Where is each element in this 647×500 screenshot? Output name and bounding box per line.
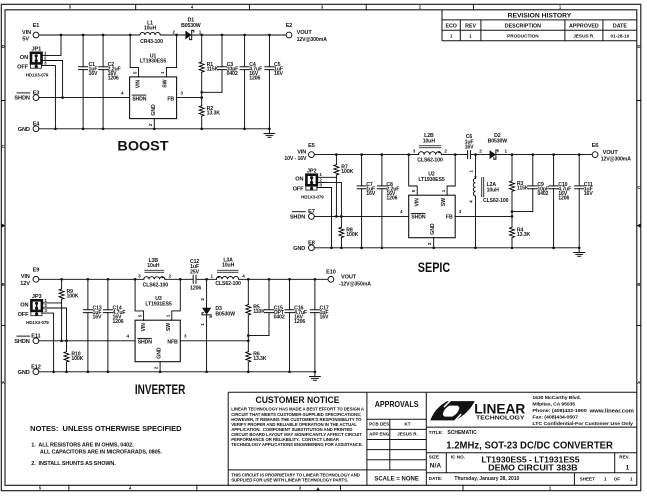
svg-text:LT1930ES5: LT1930ES5 bbox=[140, 59, 166, 65]
svg-text:1206: 1206 bbox=[558, 195, 569, 201]
svg-text:1: 1 bbox=[604, 477, 607, 482]
svg-text:VIN: VIN bbox=[21, 274, 30, 280]
label SEPIC bbox=[418, 259, 450, 275]
svg-text:2: 2 bbox=[154, 366, 159, 369]
junction dots inverter rail bbox=[60, 278, 316, 281]
node E7 SHDN bbox=[290, 209, 315, 220]
approvals table bbox=[367, 400, 426, 482]
logo Linear Technology bbox=[430, 400, 525, 421]
svg-text:JP3: JP3 bbox=[32, 294, 42, 300]
svg-text:4: 4 bbox=[469, 200, 474, 203]
resistor R7 100K bbox=[334, 155, 354, 217]
svg-text:E7: E7 bbox=[308, 209, 315, 215]
svg-text:Phone: (408)432-1900: Phone: (408)432-1900 bbox=[532, 408, 587, 413]
svg-text:FB: FB bbox=[446, 215, 453, 221]
svg-text:1: 1 bbox=[469, 34, 472, 39]
svg-text:25V: 25V bbox=[190, 270, 200, 276]
wire JP2 pin2 to R8 net bbox=[317, 182, 342, 227]
svg-text:CUSTOMER NOTICE: CUSTOMER NOTICE bbox=[256, 395, 340, 405]
wire U1 pin2 GND stub bbox=[148, 119, 155, 129]
inductor L2B 10uH CLS62-100 bbox=[413, 133, 448, 163]
svg-text:2: 2 bbox=[200, 298, 205, 301]
wire SHDN to U1 pin 4 bbox=[39, 90, 130, 97]
svg-text:VOUT: VOUT bbox=[341, 275, 357, 281]
resistor R4 13.3K bbox=[510, 216, 531, 247]
svg-text:2: 2 bbox=[427, 242, 432, 245]
svg-text:OF: OF bbox=[614, 477, 621, 482]
svg-text:2: 2 bbox=[169, 273, 172, 278]
diode D1 B0530W bbox=[181, 17, 201, 39]
svg-text:TECHNOLOGY: TECHNOLOGY bbox=[476, 415, 525, 421]
junction dots inverter gnd bbox=[52, 370, 316, 373]
svg-text:VIN: VIN bbox=[297, 150, 306, 156]
revision history table bbox=[442, 10, 637, 41]
svg-text:CLS62-100: CLS62-100 bbox=[483, 198, 509, 204]
wire JP1 pin2 to SHDN net bbox=[42, 61, 63, 98]
jumper JP2 bbox=[293, 169, 325, 200]
resistor R3 115K bbox=[510, 155, 529, 212]
node E4 GND bbox=[18, 122, 41, 133]
svg-text:4: 4 bbox=[121, 90, 124, 95]
wire NFB U3 pin3 bbox=[180, 334, 248, 341]
svg-text:PCB DES.: PCB DES. bbox=[369, 422, 390, 427]
svg-text:GND: GND bbox=[430, 223, 436, 235]
wire JP2 pin3 to GND rail bbox=[317, 188, 332, 248]
capacitor C1 1uF 16V bbox=[79, 35, 98, 129]
svg-text:LT1931ES5: LT1931ES5 bbox=[145, 301, 171, 307]
svg-text:FB: FB bbox=[167, 96, 174, 102]
svg-text:13.3K: 13.3K bbox=[207, 110, 221, 116]
capacitor C9 10pF 0402 bbox=[528, 155, 549, 212]
resistor R1 115K bbox=[199, 35, 218, 92]
wire JP3 pin2 to R10 net bbox=[42, 308, 67, 352]
svg-text:NFB: NFB bbox=[167, 340, 178, 346]
wire VIN rail sepic bbox=[314, 154, 592, 156]
svg-text:4: 4 bbox=[126, 334, 129, 339]
diode D2 B0530W bbox=[488, 133, 508, 159]
svg-text:OFF: OFF bbox=[18, 312, 30, 318]
svg-text:E5: E5 bbox=[308, 143, 315, 149]
svg-text:Milpitas, CA 95035: Milpitas, CA 95035 bbox=[532, 402, 575, 407]
svg-text:100K: 100K bbox=[341, 169, 353, 175]
svg-text:1: 1 bbox=[166, 314, 171, 317]
svg-text:APP ENG.: APP ENG. bbox=[369, 432, 390, 437]
resistor R8 100K bbox=[339, 227, 359, 248]
svg-text:2: 2 bbox=[479, 149, 482, 154]
svg-text:GND: GND bbox=[18, 127, 30, 133]
svg-text:SHEET: SHEET bbox=[580, 477, 596, 482]
svg-text:2: 2 bbox=[148, 123, 153, 126]
svg-text:JP1: JP1 bbox=[32, 47, 42, 53]
svg-text:1: 1 bbox=[200, 323, 205, 326]
svg-text:VIN: VIN bbox=[141, 323, 147, 332]
ground boost bbox=[264, 129, 275, 138]
wire U2 pin2 GND stub bbox=[427, 238, 434, 248]
capacitor C12 1uF 25V 1206 coupling bbox=[190, 259, 201, 291]
svg-text:10uH: 10uH bbox=[144, 25, 157, 31]
svg-text:E9: E9 bbox=[33, 268, 40, 274]
svg-text:1: 1 bbox=[160, 71, 165, 74]
title block bbox=[426, 392, 637, 485]
svg-text:2: 2 bbox=[172, 29, 175, 34]
node E11 SHDN bbox=[14, 334, 40, 345]
svg-text:SCHEMATIC: SCHEMATIC bbox=[447, 430, 477, 436]
svg-text:LINEAR: LINEAR bbox=[474, 400, 525, 416]
node E5 VIN 10V-16V bbox=[284, 143, 314, 162]
ground sepic bbox=[574, 248, 585, 256]
capacitor C4 4.7uF 16V 1206 bbox=[240, 35, 262, 129]
capacitor C14 4.7uF 16V 1206 bbox=[103, 279, 125, 372]
svg-text:3: 3 bbox=[180, 90, 183, 95]
svg-text:1630 McCarthy Blvd.: 1630 McCarthy Blvd. bbox=[532, 395, 581, 400]
svg-text:C: C bbox=[2, 144, 5, 149]
svg-text:100K: 100K bbox=[71, 356, 83, 362]
node E2 VOUT bbox=[286, 23, 328, 43]
label BOOST bbox=[117, 137, 169, 153]
svg-text:1.2MHz, SOT-23 DC/DC CONVERTER: 1.2MHz, SOT-23 DC/DC CONVERTER bbox=[446, 440, 613, 451]
svg-text:JESUS R.: JESUS R. bbox=[397, 432, 418, 437]
wire FB U2 pin3 bbox=[455, 209, 512, 216]
svg-text:1206: 1206 bbox=[113, 319, 124, 325]
svg-text:B: B bbox=[2, 282, 5, 287]
svg-text:16V: 16V bbox=[89, 71, 99, 77]
svg-text:3: 3 bbox=[459, 209, 462, 214]
svg-text:OFF: OFF bbox=[17, 65, 29, 71]
node E1 VIN 5V bbox=[22, 23, 39, 42]
svg-text:SUPPLIED FOR USE WITH LINEAR T: SUPPLIED FOR USE WITH LINEAR TECHNOLOGY … bbox=[231, 478, 348, 483]
wire JP1 pin3 to GND rail bbox=[42, 66, 56, 129]
svg-text:CLS62-100: CLS62-100 bbox=[417, 158, 443, 164]
svg-text:B0530W: B0530W bbox=[215, 311, 235, 317]
svg-text:4: 4 bbox=[242, 273, 245, 278]
svg-text:3: 3 bbox=[138, 273, 141, 278]
capacitor C6 1uF 16V coupling bbox=[465, 134, 475, 159]
svg-text:LTC Confidential-For Customer: LTC Confidential-For Customer Use Only bbox=[532, 421, 633, 426]
wire R5-C15 junction to NFB bbox=[248, 336, 269, 341]
svg-text:1: 1 bbox=[505, 149, 508, 154]
svg-text:5V: 5V bbox=[22, 37, 29, 43]
node E8 GND bbox=[293, 241, 315, 252]
svg-text:1: 1 bbox=[469, 170, 474, 173]
svg-text:5: 5 bbox=[411, 189, 416, 192]
svg-text:10uH: 10uH bbox=[222, 263, 235, 269]
svg-text:1: 1 bbox=[441, 189, 446, 192]
svg-text:2: 2 bbox=[444, 149, 447, 154]
junction dots sepic shdn-fb bbox=[335, 210, 513, 217]
svg-text:GND: GND bbox=[293, 246, 305, 252]
svg-text:VIN: VIN bbox=[414, 198, 420, 207]
svg-text:0402: 0402 bbox=[227, 71, 238, 77]
svg-text:E6: E6 bbox=[592, 143, 599, 149]
node 2 D2 anode bbox=[479, 149, 482, 154]
wire U3 pin1 SW stub bbox=[166, 279, 181, 320]
wire U3 pin2 GND stub bbox=[154, 362, 161, 372]
svg-text:1: 1 bbox=[450, 34, 453, 39]
capacitor C11 1uF 16V bbox=[575, 155, 594, 248]
svg-text:VOUT: VOUT bbox=[297, 30, 313, 36]
svg-text:GND: GND bbox=[156, 347, 162, 359]
svg-text:CLS62-100: CLS62-100 bbox=[215, 281, 241, 287]
wire U1 pin5 VIN stub bbox=[130, 35, 138, 77]
wire VIN rail boost bbox=[39, 34, 286, 36]
svg-text:DATE:: DATE: bbox=[429, 476, 443, 481]
wire VIN rail inverter bbox=[39, 278, 328, 280]
svg-text:SHDN: SHDN bbox=[132, 96, 147, 102]
svg-text:CR43-100: CR43-100 bbox=[140, 39, 163, 45]
svg-text:110K: 110K bbox=[253, 309, 265, 315]
svg-text:HD1X3-079: HD1X3-079 bbox=[301, 195, 324, 200]
svg-text:10uH: 10uH bbox=[423, 138, 436, 144]
svg-text:Thursday, January 28, 2010: Thursday, January 28, 2010 bbox=[454, 476, 519, 482]
address block text bbox=[532, 395, 634, 426]
svg-text:5: 5 bbox=[138, 314, 143, 317]
wire JP2 pin1 to R7 net bbox=[317, 176, 337, 178]
node 1 D1 cathode bbox=[199, 29, 202, 34]
node E10 VOUT bbox=[326, 269, 371, 287]
svg-text:E12: E12 bbox=[31, 365, 41, 371]
svg-text:115K: 115K bbox=[517, 186, 529, 192]
svg-text:0402: 0402 bbox=[274, 315, 285, 321]
svg-text:SW: SW bbox=[162, 79, 168, 87]
wire JP3 pin3 to GND rail bbox=[42, 313, 54, 372]
capacitor C10 4.7uF 16V 1206 bbox=[549, 155, 571, 248]
op-amp U1 LT1930ES5 bbox=[130, 53, 177, 118]
svg-text:1. ALL RESISTORS ARE IN OHMS,: 1. ALL RESISTORS ARE IN OHMS, 0402. bbox=[31, 443, 134, 449]
resistor R10 100K bbox=[64, 352, 84, 372]
junction dots boost shdn-fb bbox=[61, 91, 203, 99]
svg-text:1: 1 bbox=[211, 273, 214, 278]
svg-text:VOUT: VOUT bbox=[603, 150, 619, 156]
junction dots sepic rail bbox=[335, 153, 581, 156]
svg-text:C: C bbox=[637, 185, 640, 190]
wire R1-C3 junction to FB bbox=[202, 92, 222, 97]
resistor R2 13.3K bbox=[199, 98, 220, 129]
capacitor C7 1uF 16V bbox=[357, 155, 376, 248]
wire U2 pin5 VIN stub bbox=[409, 155, 418, 196]
svg-text:12V: 12V bbox=[20, 281, 30, 287]
svg-text:DESCRIPTION: DESCRIPTION bbox=[505, 24, 541, 30]
node E3 SHDN bbox=[14, 90, 39, 101]
capacitor C17 1uF 16V bbox=[310, 279, 329, 372]
svg-text:10uH: 10uH bbox=[487, 187, 500, 193]
svg-text:01-28-10: 01-28-10 bbox=[611, 34, 630, 39]
svg-text:REVISION HISTORY: REVISION HISTORY bbox=[508, 12, 573, 19]
svg-text:100K: 100K bbox=[67, 294, 79, 300]
wire U2 pin1 SW stub bbox=[441, 155, 455, 196]
svg-text:ON: ON bbox=[20, 302, 28, 308]
svg-text:NOTES: UNLESS OTHERWISE SPECI: NOTES: UNLESS OTHERWISE SPECIFIED bbox=[30, 424, 182, 433]
wire U3 pin5 VIN stub bbox=[135, 279, 144, 320]
svg-text:OFF: OFF bbox=[293, 187, 305, 193]
svg-text:E3: E3 bbox=[33, 90, 40, 96]
svg-text:APPROVED: APPROVED bbox=[569, 24, 599, 30]
svg-text:16V: 16V bbox=[93, 315, 103, 321]
svg-text:ON: ON bbox=[20, 55, 28, 61]
svg-text:1: 1 bbox=[630, 477, 633, 482]
svg-text:SHDN: SHDN bbox=[138, 340, 153, 346]
svg-text:E8: E8 bbox=[308, 241, 315, 247]
svg-text:D: D bbox=[2, 44, 5, 49]
capacitor C13 1uF 16V bbox=[83, 279, 102, 372]
svg-text:B0530W: B0530W bbox=[181, 23, 201, 29]
svg-text:SW: SW bbox=[166, 323, 172, 331]
svg-text:1206: 1206 bbox=[108, 76, 119, 82]
wire GND rail boost bbox=[39, 128, 270, 130]
node E6 VOUT bbox=[592, 143, 632, 163]
svg-text:E4: E4 bbox=[33, 122, 41, 128]
svg-text:VIN: VIN bbox=[22, 30, 31, 36]
svg-text:-12V@350mA: -12V@350mA bbox=[339, 281, 371, 287]
resistor R5 110K bbox=[246, 279, 265, 335]
notes text bbox=[30, 424, 182, 467]
svg-text:E2: E2 bbox=[286, 23, 293, 29]
svg-text:DATE: DATE bbox=[613, 24, 627, 30]
jumper JP3 bbox=[18, 294, 50, 325]
svg-text:JESUS R.: JESUS R. bbox=[573, 34, 594, 39]
svg-text:www.linear.com: www.linear.com bbox=[589, 408, 635, 414]
svg-text:13.3K: 13.3K bbox=[517, 232, 531, 238]
svg-text:SHDN: SHDN bbox=[14, 96, 29, 102]
junction dots boost rail bbox=[60, 34, 271, 37]
svg-text:Fax: (408)434-0507: Fax: (408)434-0507 bbox=[532, 415, 578, 420]
inductor L3B 10uH CLS62-100 bbox=[138, 258, 172, 288]
junction dots sepic gnd bbox=[330, 246, 580, 249]
inductor L1 10uH CR43-100 bbox=[140, 20, 163, 45]
svg-text:TITLE:: TITLE: bbox=[429, 430, 444, 435]
node 2 D1 anode bbox=[172, 29, 175, 34]
svg-text:VIN: VIN bbox=[135, 80, 141, 89]
capacitor C15 OPT 0402 bbox=[265, 279, 285, 335]
svg-text:LT1930ES5: LT1930ES5 bbox=[418, 177, 444, 183]
svg-text:1206: 1206 bbox=[294, 319, 305, 325]
svg-text:SW: SW bbox=[441, 198, 447, 206]
svg-text:3: 3 bbox=[44, 61, 47, 66]
wire FB U1 pin3 bbox=[177, 90, 202, 97]
svg-text:3: 3 bbox=[319, 182, 322, 187]
svg-text:HD1X3-079: HD1X3-079 bbox=[26, 73, 49, 78]
inductor L2A 10uH CLS62-100 winding bbox=[469, 155, 509, 248]
label INVERTER bbox=[135, 381, 186, 397]
diode D3 B0530W bbox=[200, 279, 235, 372]
jumper JP1 bbox=[17, 47, 49, 78]
svg-text:KT: KT bbox=[405, 422, 411, 427]
node 1 D2 cathode bbox=[505, 149, 508, 154]
svg-text:B: B bbox=[637, 282, 640, 287]
svg-text:16V: 16V bbox=[320, 315, 330, 321]
svg-text:IC NO.: IC NO. bbox=[451, 455, 465, 460]
node E12 GND bbox=[18, 365, 41, 376]
svg-text:100K: 100K bbox=[346, 232, 358, 238]
svg-text:ECO: ECO bbox=[445, 24, 456, 30]
svg-text:1: 1 bbox=[626, 465, 630, 472]
svg-text:PRODUCTION: PRODUCTION bbox=[507, 34, 539, 39]
svg-text:SHDN: SHDN bbox=[290, 215, 305, 221]
svg-text:E10: E10 bbox=[326, 269, 336, 275]
svg-text:5: 5 bbox=[133, 71, 138, 74]
svg-text:INVERTER: INVERTER bbox=[135, 381, 186, 397]
svg-text:1206: 1206 bbox=[190, 285, 201, 291]
svg-text:SHDN: SHDN bbox=[411, 215, 426, 221]
svg-text:3: 3 bbox=[44, 308, 47, 313]
wire R3-C9 junction to FB bbox=[512, 212, 533, 217]
svg-text:ON: ON bbox=[295, 177, 303, 183]
capacitor C8 2.2uF 16V 1206 bbox=[377, 155, 399, 248]
capacitor C3 10pF 0402 bbox=[218, 35, 239, 92]
wire JP1 pin1 to VIN rail bbox=[42, 35, 62, 55]
svg-text:SCALE = NONE: SCALE = NONE bbox=[374, 476, 419, 482]
svg-text:1: 1 bbox=[199, 29, 202, 34]
wire GND rail inverter bbox=[39, 371, 315, 373]
svg-text:SIZE: SIZE bbox=[429, 455, 439, 460]
svg-text:10V - 16V: 10V - 16V bbox=[284, 156, 307, 162]
svg-text:GND: GND bbox=[151, 104, 157, 116]
svg-text:SEPIC: SEPIC bbox=[418, 259, 450, 275]
svg-text:E1: E1 bbox=[33, 23, 40, 29]
wire SHDN to U2 pin 4 bbox=[314, 209, 408, 216]
svg-text:3: 3 bbox=[184, 334, 187, 339]
svg-text:N/A: N/A bbox=[430, 463, 442, 470]
svg-text:16V: 16V bbox=[584, 191, 594, 197]
svg-text:REV.: REV. bbox=[619, 455, 629, 460]
svg-text:A: A bbox=[2, 380, 5, 385]
inductor L3A 10uH CLS62-100 bbox=[211, 258, 246, 288]
svg-text:SHDN: SHDN bbox=[14, 339, 29, 345]
resistor R9 100K bbox=[59, 279, 79, 341]
svg-text:TECHNOLOGY APPLICATIONS ENGINE: TECHNOLOGY APPLICATIONS ENGINEERING FOR … bbox=[231, 442, 362, 447]
node E9 VIN 12V bbox=[20, 268, 39, 287]
capacitor C5 1uF 16V bbox=[265, 35, 284, 129]
svg-text:16V: 16V bbox=[465, 145, 475, 151]
wire SHDN to U3 pin 4 bbox=[39, 334, 135, 341]
svg-text:BOOST: BOOST bbox=[117, 137, 169, 153]
svg-text:REV: REV bbox=[465, 24, 476, 30]
wire GND rail sepic bbox=[314, 247, 579, 249]
junction dots inverter shdn-nfb bbox=[60, 334, 249, 342]
svg-text:16V: 16V bbox=[274, 71, 284, 77]
capacitor C2 2.2uF 16V 1206 bbox=[99, 35, 121, 129]
svg-text:2. INSTALL SHUNTS AS SHOWN.: 2. INSTALL SHUNTS AS SHOWN. bbox=[31, 461, 116, 467]
svg-text:10uH: 10uH bbox=[147, 263, 160, 269]
svg-text:1206: 1206 bbox=[249, 76, 260, 82]
wire U1 pin1 SW stub bbox=[160, 35, 176, 77]
svg-text:13.3K: 13.3K bbox=[253, 356, 267, 362]
svg-text:E11: E11 bbox=[31, 334, 40, 340]
svg-text:16V: 16V bbox=[366, 191, 376, 197]
svg-text:0402: 0402 bbox=[537, 191, 548, 197]
resistor R6 13.3K bbox=[246, 341, 267, 372]
svg-text:1206: 1206 bbox=[386, 195, 397, 201]
svg-text:CLS62-100: CLS62-100 bbox=[143, 282, 169, 288]
customer notice box bbox=[228, 392, 426, 485]
svg-text:B0530W: B0530W bbox=[488, 139, 508, 145]
svg-text:4: 4 bbox=[400, 209, 403, 214]
svg-text:JP2: JP2 bbox=[307, 169, 317, 175]
svg-text:12V@300mA: 12V@300mA bbox=[297, 37, 328, 43]
junction dots boost gnd bbox=[54, 127, 271, 130]
svg-text:ALL CAPACITORS ARE IN MICROFAR: ALL CAPACITORS ARE IN MICROFARADS, 0805. bbox=[40, 449, 163, 455]
svg-text:APPROVALS: APPROVALS bbox=[375, 400, 419, 409]
capacitor C16 4.7uF 16V 1206 bbox=[285, 279, 307, 372]
op-amp U2 LT1930ES5 bbox=[409, 172, 456, 238]
svg-text:DEMO CIRCUIT 383B: DEMO CIRCUIT 383B bbox=[488, 462, 578, 472]
svg-text:D: D bbox=[637, 44, 640, 49]
svg-text:HD1X3-079: HD1X3-079 bbox=[26, 320, 49, 325]
op-amp U3 LT1931ES5 bbox=[135, 296, 180, 362]
title block text bbox=[429, 430, 633, 482]
svg-text:3: 3 bbox=[413, 149, 416, 154]
svg-text:12V@300mA: 12V@300mA bbox=[601, 157, 632, 163]
svg-text:GND: GND bbox=[18, 370, 30, 376]
